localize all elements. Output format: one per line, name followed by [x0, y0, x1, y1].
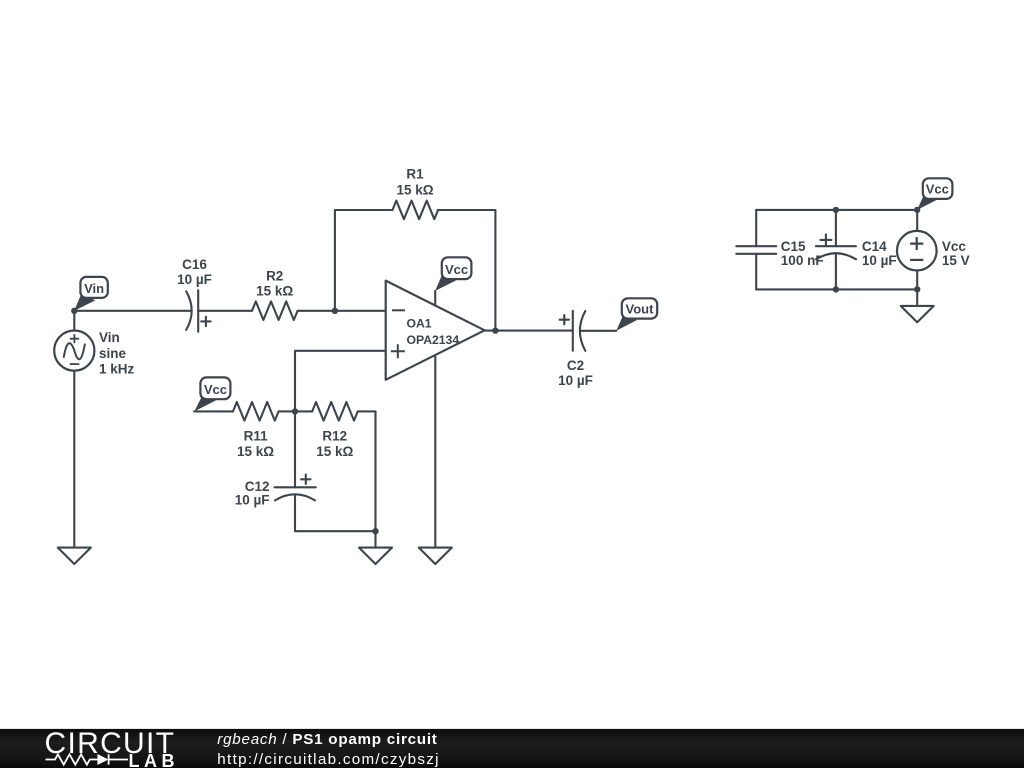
svg-text:100 nF: 100 nF: [781, 253, 824, 268]
capacitor C16 straight plate: [197, 290, 199, 332]
wire opamp plus input: [295, 351, 386, 412]
svg-text:Vin: Vin: [84, 281, 104, 296]
node dot top rail Vcc: [914, 207, 920, 213]
svg-text:C15: C15: [781, 239, 806, 254]
wire opamp output: [485, 330, 573, 332]
capacitor C12 curved plate: [275, 494, 315, 500]
svg-text:Vcc: Vcc: [926, 181, 949, 196]
wire C12 bottom to ground node: [295, 494, 376, 531]
svg-text:10 µF: 10 µF: [235, 492, 270, 507]
voltage source Vcc circle: [897, 231, 937, 271]
wire Vcc source top lead: [916, 210, 918, 231]
wire junction to R12: [295, 410, 312, 412]
svg-text:10 µF: 10 µF: [862, 253, 897, 268]
flag Vcc at supply: [917, 178, 952, 210]
svg-text:15 kΩ: 15 kΩ: [316, 444, 353, 459]
Vin source plus: [70, 334, 79, 343]
svg-text:C16: C16: [182, 257, 207, 272]
resistor R11: [233, 402, 279, 421]
svg-text:rgbeach / PS1 opamp circuit: rgbeach / PS1 opamp circuit: [217, 731, 437, 748]
Vcc source plus: [910, 237, 923, 250]
svg-text:Vcc: Vcc: [942, 239, 967, 254]
capacitor C15 plate bottom: [736, 253, 776, 255]
svg-text:C14: C14: [862, 239, 887, 254]
C16 plus sign: [201, 317, 210, 326]
wire C16 to R2: [198, 310, 252, 312]
wire C2 to Vout: [580, 330, 616, 332]
svg-text:10 µF: 10 µF: [177, 272, 212, 287]
node dot R11 R12 junction: [292, 408, 298, 414]
Vin source minus: [70, 363, 80, 365]
wire feedback right vertical: [438, 210, 496, 331]
node dot Vin: [71, 308, 77, 314]
capacitor C12 straight plate: [275, 486, 316, 488]
svg-text:C2: C2: [567, 358, 584, 373]
wire C15 bottom lead: [755, 254, 757, 290]
ground R12C12: [359, 548, 392, 564]
wire source to ground: [73, 371, 75, 548]
svg-text:15 V: 15 V: [942, 253, 970, 268]
ground Vcc source: [901, 306, 934, 322]
C2 plus sign: [560, 315, 569, 324]
ground stub R12C12: [374, 531, 376, 547]
wire bypass top rail: [756, 209, 917, 211]
node dot bottom rail C14: [833, 286, 839, 292]
node dot ground junction: [372, 528, 378, 534]
wire R2 to opamp minus: [298, 310, 386, 312]
flag Vcc at opamp: [435, 257, 471, 291]
op-amp OA1 triangle: [386, 281, 485, 380]
logo resistor-diode glyph: [46, 754, 129, 764]
svg-text:LAB: LAB: [129, 751, 175, 768]
resistor R1: [393, 201, 439, 220]
resistor R12: [312, 402, 358, 421]
node dot top rail C14: [833, 207, 839, 213]
wire Vcc source bottom lead: [916, 271, 918, 290]
Vcc source minus: [910, 259, 923, 261]
svg-text:R2: R2: [266, 269, 283, 284]
wire junction down to C12: [294, 411, 296, 487]
svg-text:15 kΩ: 15 kΩ: [396, 182, 433, 197]
wire feedback left vertical: [335, 210, 393, 311]
node dot feedback junction: [332, 308, 338, 314]
svg-text:Vcc: Vcc: [445, 262, 468, 277]
wire bypass bottom rail: [756, 288, 917, 290]
resistor R2: [252, 301, 298, 320]
ground stub right: [916, 289, 918, 306]
C12 plus sign: [301, 475, 310, 484]
capacitor C14 straight plate: [816, 245, 856, 247]
wire opamp V+ stub: [434, 291, 436, 305]
flag Vcc at R11: [195, 377, 231, 411]
svg-text:15 kΩ: 15 kΩ: [237, 444, 274, 459]
wire main input: [74, 310, 191, 312]
svg-text:R12: R12: [322, 429, 347, 444]
C14 plus sign: [820, 234, 831, 245]
capacitor C14 curved plate: [816, 253, 856, 259]
capacitor C2 curved plate: [580, 311, 585, 351]
wire C14 top lead: [835, 210, 837, 246]
svg-text:sine: sine: [99, 346, 127, 361]
svg-text:R11: R11: [244, 429, 269, 444]
svg-text:OPA2134: OPA2134: [407, 333, 460, 347]
ground source Vin: [58, 548, 91, 564]
voltage source Vin circle: [54, 331, 94, 371]
node dot bottom rail Vcc: [914, 286, 920, 292]
capacitor C16 curved plate: [186, 291, 192, 330]
wire R12 right down to bottom: [358, 411, 376, 531]
svg-text:Vcc: Vcc: [204, 382, 227, 397]
wire Vcc tail to R11: [194, 410, 233, 412]
svg-text:15 kΩ: 15 kΩ: [256, 283, 293, 298]
svg-text:http://circuitlab.com/czybszj: http://circuitlab.com/czybszj: [217, 751, 440, 768]
op-amp minus input symbol: [392, 309, 405, 311]
svg-text:Vout: Vout: [626, 302, 655, 317]
ground opamp: [419, 548, 452, 564]
node dot opamp output: [492, 327, 498, 333]
svg-text:1 kHz: 1 kHz: [99, 362, 135, 377]
flag Vout: [616, 298, 657, 331]
Vin source sine wave: [64, 343, 85, 359]
capacitor C2 straight plate: [572, 311, 574, 351]
svg-text:R1: R1: [406, 167, 424, 182]
flag Vin: [74, 277, 108, 311]
wire R11 to junction: [279, 410, 295, 412]
wire C14 bottom lead: [835, 253, 837, 289]
wire opamp V- to ground: [434, 356, 436, 547]
svg-text:10 µF: 10 µF: [558, 373, 593, 388]
op-amp plus input symbol: [391, 344, 405, 358]
wire C15 top lead: [755, 210, 757, 246]
capacitor C15 plate top: [736, 245, 776, 247]
svg-text:OA1: OA1: [407, 317, 432, 331]
wire Vin node to source: [73, 311, 75, 331]
svg-text:Vin: Vin: [99, 330, 120, 345]
